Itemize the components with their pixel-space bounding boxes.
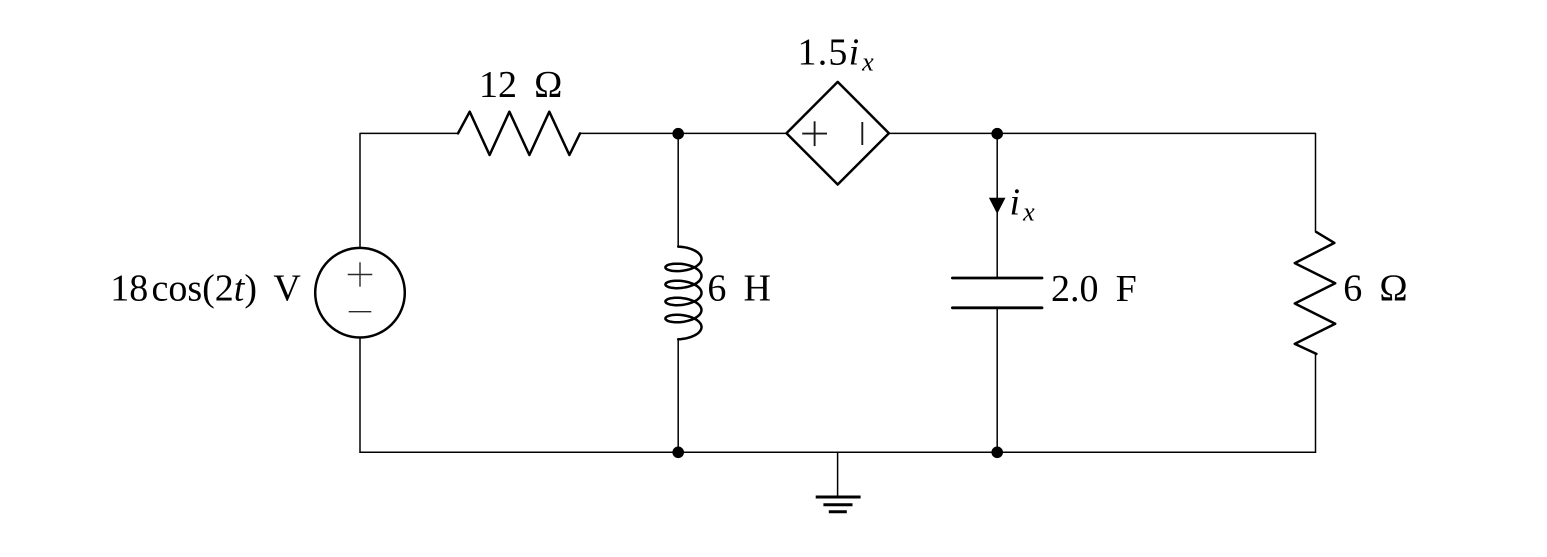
node A junction dot [672, 128, 684, 140]
capacitor C1 bottom plate [952, 306, 1042, 309]
dependent source E1 diamond [787, 82, 889, 185]
resistor R2 6ohm zigzag [1295, 232, 1335, 354]
node B junction dot [991, 128, 1003, 140]
wire top-middle (R1 right to dependent source left, through node A) [580, 132, 787, 134]
wire left-lower (source bottom to bottom-left corner) [359, 338, 361, 453]
wire capacitor branch top (node B down to C1) [996, 134, 998, 278]
wire ground stem [837, 452, 839, 495]
svg-text:6 Ω: 6 Ω [1343, 268, 1407, 310]
node A2 bottom junction dot [672, 447, 684, 459]
resistor R1 12ohm zigzag [458, 112, 580, 155]
wire inductor branch bottom (L1 down to bottom rail) [677, 340, 679, 453]
dependent source E1 polarity marks [802, 121, 862, 146]
capacitor C1 top plate [952, 277, 1042, 280]
wire top-left (source top to R1 left) [360, 133, 458, 248]
svg-text:2.0 F: 2.0 F [1051, 268, 1137, 310]
inductor L1 coil [665, 247, 701, 340]
voltage source V1 polarity marks [348, 262, 373, 311]
current arrow ix on capacitor branch [989, 198, 1006, 214]
svg-text:6 H: 6 H [707, 268, 771, 310]
svg-text:ix: ix [1010, 181, 1036, 226]
wire bottom rail [360, 451, 1316, 453]
svg-text:12 Ω: 12 Ω [479, 64, 562, 106]
voltage source V1 circle [315, 248, 405, 338]
wire right-lower (R2 bottom to bottom-right corner) [1315, 354, 1317, 452]
wire inductor branch top (node A down to L1) [677, 134, 679, 247]
wire capacitor branch bottom (C1 to bottom rail) [996, 308, 998, 453]
svg-text:18 cos(2t) V: 18 cos(2t) V [110, 268, 301, 310]
wire top-right (dependent source right to right corner down to R2) [889, 133, 1316, 232]
svg-text:1.5ix: 1.5ix [798, 32, 875, 77]
ground symbol [816, 497, 861, 512]
node B2 bottom junction dot [991, 447, 1003, 459]
